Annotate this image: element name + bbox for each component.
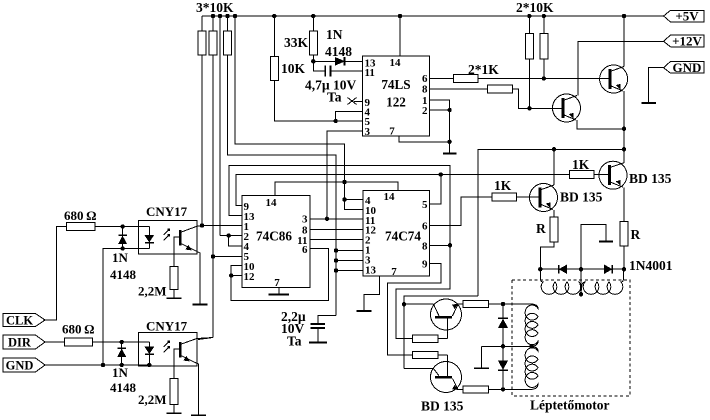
node diode column top (501, 302, 505, 306)
node diode line right (622, 267, 626, 271)
transistor BD135 left (530, 184, 558, 212)
resistor 2*1K b (488, 85, 513, 93)
wire +12V to T2 collector (578, 41, 664, 95)
light arrow CNY17#2 (164, 343, 169, 353)
wire U1 pin6 to 2*1K a (430, 78, 454, 80)
node rail junction T1 collector line (622, 14, 626, 18)
transistor BD135 bottom-upper (431, 299, 462, 330)
svg-text:6: 6 (302, 244, 308, 256)
node 74C74 pin5 tap (439, 172, 443, 176)
wire U3 pin9 to lower base resistor (388, 263, 441, 355)
resistor 2,2M #2 (170, 378, 178, 404)
resistor R-pullup2 (3*10K) (212, 16, 214, 31)
wire BD135-right emitter to R (623, 188, 625, 222)
svg-text:R: R (536, 221, 546, 236)
wire +5V rail (202, 15, 664, 17)
wire 74C74 pin8 stub (430, 244, 451, 246)
svg-text:10K: 10K (281, 61, 306, 76)
resistor emitter bottom-upper (463, 300, 488, 307)
wire supply line y149 (478, 149, 624, 296)
wire 680#1 to optocoupler LED (95, 226, 149, 228)
diode 1N4148 #1 (input clamp) (122, 227, 124, 249)
wire BD135-left collector riser (553, 149, 555, 185)
wire 2*10K b to T1 base line (543, 59, 545, 79)
wire BD135-left emitter to R (553, 210, 555, 217)
resistor R-pullup1 (3*10K) (201, 16, 203, 31)
wire DIR to 680ohm #2 (45, 341, 64, 343)
capacitor 4,7u 10V Ta (313, 61, 325, 71)
node GND / cathode return #1 (101, 363, 105, 367)
svg-text:2,2M: 2,2M (138, 284, 167, 299)
flag GND (right) (664, 61, 705, 73)
ground diode column (480, 346, 482, 367)
svg-text:2,2M: 2,2M (138, 392, 167, 407)
wire U2 pin11 to 74C74 pin2 (310, 239, 363, 241)
motor dashed box (512, 280, 630, 396)
svg-text:1K: 1K (494, 178, 512, 193)
resistor 33K (312, 16, 314, 31)
wire bottom-lower base riser (447, 355, 449, 376)
wire bottom-upper emitter to resistor (458, 303, 463, 305)
wire 680#2 to optocoupler LED (93, 341, 150, 343)
wire U1 pin1/pin2 to ground (430, 100, 450, 153)
diode 1N4001 right (points right) (604, 265, 611, 274)
wire 1N4001 line (540, 268, 624, 270)
node U1 pin7 junction (447, 140, 451, 144)
svg-text:5: 5 (422, 199, 428, 211)
wire U2 pin8 to 74C74 pin12 (310, 229, 363, 231)
node diode1 anode (120, 224, 124, 228)
wire top winding right riser (623, 268, 625, 270)
resistor 680ohm #1 (67, 223, 95, 231)
svg-text:14: 14 (266, 197, 278, 209)
svg-text:8: 8 (422, 241, 428, 253)
diode 1N4148 (to U1 pin13) (313, 60, 335, 62)
wire top winding center riser (580, 269, 582, 294)
svg-text:BD 135: BD 135 (421, 399, 464, 414)
ground capacitor 2,2u (309, 342, 327, 344)
IC U1 74LS122 (363, 56, 430, 136)
wire to motor coil bottom-left (503, 388, 532, 390)
node supply / BD135-left collector (552, 147, 556, 151)
wire 2,2M#1 to ground (173, 290, 175, 298)
node diode line center (579, 267, 583, 271)
diode 1N4148 #2 (input clamp) (121, 342, 123, 365)
wire 74C74 pin4 stub (345, 199, 364, 201)
resistor 1K (BD135 left base) (492, 193, 517, 201)
svg-text:74C74: 74C74 (385, 229, 421, 244)
svg-text:Léptetőmotor: Léptetőmotor (530, 398, 609, 413)
wire 33K junction (312, 55, 314, 61)
wire freewheel diode column (502, 304, 504, 389)
wire 74C74 pin5 hook (430, 175, 441, 205)
flag +12V (664, 35, 705, 47)
wire T1 emitter down (623, 91, 625, 129)
node diode1 cathode (120, 246, 124, 250)
node clear bus 74C74 pin3 (334, 258, 338, 262)
diode freewheel upper (points up) (498, 317, 508, 319)
svg-text:7: 7 (391, 266, 397, 278)
svg-text:122: 122 (386, 95, 406, 110)
node U2 pin12 junction (229, 273, 233, 277)
svg-text:2*10K: 2*10K (516, 0, 554, 15)
node clear bus 74C74 pin13 (334, 268, 338, 272)
node supply / BD135-right collector (622, 147, 626, 151)
wire supply to bottom-lower collector (404, 368, 434, 370)
wire BD135-right collector riser (623, 149, 625, 163)
wire U3 pin7 to ground (364, 276, 380, 310)
wire r2 down to 74C86 pin5 / CNY17#2 collector (212, 55, 214, 338)
resistor 2*10K a (528, 16, 530, 34)
wire GND line (45, 364, 149, 366)
wire upper collector branch (404, 303, 434, 305)
ground U1 (443, 153, 456, 155)
transistor T1 (upper right) (600, 65, 628, 93)
node left winding tap (529, 344, 533, 348)
svg-text:BD 135: BD 135 (629, 171, 672, 186)
resistor 2,2M #1 (170, 267, 178, 290)
wire Vcc pin14s line (275, 182, 398, 195)
capacitor 2,2u 10V Ta (clear bus) (318, 316, 336, 325)
svg-text:3: 3 (365, 126, 371, 138)
svg-text:33K: 33K (284, 35, 309, 50)
wire r3 to 74C74 clear bus (228, 55, 337, 316)
wire U3 pin3 stub (336, 260, 363, 262)
node U2 pin3 / U1 pin3 (325, 217, 329, 221)
wire 2*10K a to T2 base line (528, 59, 530, 108)
wire 2*1K b to T2 base (512, 89, 563, 108)
node 74C74 pin8 tap (448, 243, 452, 247)
wire U2 pin4 hook (229, 236, 242, 246)
flag DIR (3, 335, 45, 349)
svg-text:1N4001: 1N4001 (629, 258, 673, 273)
node diode line left (538, 267, 542, 271)
IC U3 74C74 (363, 191, 429, 277)
node r2 / 74C86 pin5 (211, 254, 215, 258)
svg-text:+12V: +12V (672, 34, 702, 49)
wire U1 pin8 to 2*1K b (430, 88, 488, 90)
node pin4 hook on pin5 line (333, 119, 337, 123)
flag CLK (3, 314, 45, 327)
resistor 680ohm #2 (64, 338, 92, 346)
svg-text:680 Ω: 680 Ω (64, 208, 97, 223)
resistor R-pullup3 (3*10K) (227, 16, 229, 31)
wire base res to riser (upper) (438, 338, 448, 340)
optocoupler U5 CNY17 box (138, 333, 196, 366)
wire U1 pin14 to +5V rail (399, 16, 401, 56)
svg-text:CNY17: CNY17 (146, 319, 188, 334)
ground U2 pin7 (278, 288, 280, 294)
svg-text:CNY17: CNY17 (146, 204, 188, 219)
wire bottom-lower emitter to resistor (458, 388, 463, 390)
svg-text:14: 14 (390, 57, 402, 69)
svg-text:4148: 4148 (325, 44, 352, 59)
node CNY17#1 collector to r1 and U2 pin1 (200, 223, 204, 227)
inductor winding left lower (525, 346, 538, 389)
ground CNY17#2 emitter (191, 414, 206, 416)
wire U2 pin3 to 74C74 pin11 (310, 218, 363, 220)
svg-text:74C86: 74C86 (256, 229, 292, 244)
wire 2*1K a to T1 base (478, 78, 610, 80)
wire U1 pin3 to 74C86 pin3 (327, 131, 363, 219)
diode freewheel lower (points down) (498, 361, 507, 370)
svg-text:4148: 4148 (110, 267, 137, 282)
svg-text:14: 14 (384, 191, 396, 203)
wire 1K to BD135-right base (594, 174, 609, 176)
node diode2 anode (120, 340, 124, 344)
node rail junction 2*10K a (527, 14, 531, 18)
wire 74C86 pin13 to 74C74 pin8 (bus) (229, 166, 450, 339)
svg-text:1N: 1N (326, 27, 343, 42)
wire +5V to 74C86 pins 2,4 (219, 16, 221, 236)
wire U2 pin1 from CNY17#1 (202, 225, 242, 227)
resistor 1K (BD135 right base) (570, 171, 594, 179)
transistor BD135 right (599, 161, 627, 189)
wire R left jog to diode line (540, 242, 554, 269)
resistor base bottom-lower (412, 351, 437, 358)
node rail junction r2 (211, 14, 215, 18)
LED of CNY17#2 (148, 342, 150, 347)
wire U2 pin5 from r2 (213, 256, 242, 258)
svg-text:2: 2 (422, 105, 428, 117)
node U1 pin2 junction (447, 108, 451, 112)
wire U3 pin6 to 1K (BD135 left) (430, 197, 493, 226)
node diode2 cathode (120, 363, 124, 367)
svg-text:R: R (631, 227, 641, 242)
svg-text:BD 135: BD 135 (560, 190, 603, 205)
flag +5V (664, 10, 705, 22)
wire CNY17#1 base to 2,2M (174, 237, 179, 267)
svg-text:Ta: Ta (327, 90, 342, 105)
svg-text:8: 8 (422, 84, 428, 96)
wire 1K to BD135-left base (517, 196, 541, 198)
node T2 base junction (527, 106, 531, 110)
ground GND flag (641, 102, 656, 104)
wire 2,2M#2 to ground (173, 405, 175, 413)
svg-text:680 Ω: 680 Ω (62, 322, 95, 337)
svg-text:GND: GND (6, 359, 34, 373)
node LED#2 cathode / GND (147, 363, 151, 367)
inductor winding top left (540, 278, 581, 294)
node rail junction r3 (225, 14, 229, 18)
wire base res to riser (lower) (438, 354, 448, 356)
wire LED#1 cathode return to GND line (103, 249, 149, 366)
resistor R (right) (620, 222, 628, 246)
svg-text:1N: 1N (112, 250, 129, 265)
node supply / upper collector branch (402, 302, 406, 306)
trigger mark X at U1 pin9 (348, 98, 357, 105)
svg-text:4148: 4148 (110, 380, 137, 395)
wire CNY17#2 base to 2,2M (174, 349, 179, 378)
svg-text:1K: 1K (572, 157, 590, 172)
svg-text:CLK: CLK (6, 314, 33, 328)
wire +5V to 74C74 Vcc bus (235, 16, 363, 210)
svg-text:13: 13 (365, 265, 377, 277)
node rail junction wire-220 (218, 14, 222, 18)
svg-text:7: 7 (389, 126, 395, 138)
node rail junction 2*10K b (542, 14, 546, 18)
svg-text:6: 6 (422, 221, 428, 233)
node top winding tap (579, 292, 583, 296)
transistor BD135 bottom-lower (431, 362, 462, 393)
svg-text:DIR: DIR (8, 336, 32, 350)
wire CNY17#2 emitter to ground (194, 362, 199, 415)
wire supply to bottom collectors (404, 296, 478, 369)
wire U2 pin6 to U2 pins10,12 loop (231, 249, 328, 301)
wire U3 pin13 stub (336, 270, 363, 272)
inductor winding left upper (525, 304, 538, 346)
svg-text:9: 9 (422, 259, 428, 271)
resistor R (left) (550, 217, 558, 242)
flag GND (left) (3, 358, 45, 372)
wire GND flag to ground (649, 68, 664, 102)
resistor emitter bottom-lower (463, 386, 488, 393)
wire T2 emitter to junction (577, 120, 624, 129)
wire top winding left riser (539, 269, 541, 278)
phototransistor CNY17#2 (179, 342, 182, 358)
wire center tap left winding (481, 345, 531, 347)
node rail junction U1 pin14 (398, 14, 402, 18)
wire r2 corner to CNY17#2 collector (198, 338, 213, 340)
wire 74C86 pin9 to 74C74 pin5 and 1K base (bus) (236, 175, 569, 206)
svg-text:12: 12 (244, 271, 256, 283)
svg-text:Ta: Ta (287, 334, 302, 349)
node diode column bottom (501, 387, 505, 391)
wire CLK to 680ohm (45, 227, 67, 321)
wire U1 pin4 hook (336, 112, 363, 122)
node clear bus 74C74 pin1 (334, 248, 338, 252)
wire +5V to T1 collector (623, 16, 625, 67)
svg-text:GND: GND (673, 60, 702, 75)
optocoupler U4 CNY17 box (138, 221, 196, 254)
svg-text:3*10K: 3*10K (196, 0, 234, 15)
node T1 base junction (542, 76, 546, 80)
node diode column center (501, 344, 505, 348)
wire R right to diode line (623, 246, 625, 269)
resistor 2*1K a (453, 75, 478, 83)
IC U2 74C86 (242, 195, 310, 287)
ground U3 (356, 310, 371, 312)
svg-text:1N: 1N (112, 365, 129, 380)
ground CNY17#1 emitter (193, 304, 208, 306)
phototransistor CNY17#1 (179, 230, 182, 246)
diode 1N4001 left (points left) (558, 265, 560, 274)
wire CNY17#1 emitter to ground (196, 251, 201, 304)
node rail junction 10K (272, 14, 276, 18)
wire 10K to U1 pin5 line (274, 81, 362, 122)
transistor T2 (553, 94, 581, 122)
resistor 10K (273, 16, 275, 57)
svg-text:7: 7 (274, 277, 280, 289)
ground 2,2M#1 (167, 297, 182, 299)
svg-text:+5V: +5V (675, 9, 699, 24)
node Vcc bus / 74C74 pin4 (342, 197, 346, 201)
wire emitter junction down to supply line (623, 129, 625, 163)
wire to motor coil top-left (503, 303, 532, 305)
wire U2 pin2/pin4 to +5V line (220, 235, 242, 237)
inductor winding top right (581, 269, 624, 294)
resistor 2*10K b (543, 16, 545, 34)
wire U1 pin7 to ground (399, 136, 450, 142)
node rail junction 33K (311, 14, 315, 18)
svg-text:11: 11 (365, 67, 375, 79)
resistor base bottom-upper (412, 335, 437, 342)
node emitter junction (622, 127, 626, 131)
node Vcc bus / 14s line (342, 180, 346, 184)
wire r1 to CNY17#1 collector node (201, 55, 203, 226)
wire bottom-upper base riser (447, 319, 449, 339)
ground 2,2M#2 (167, 412, 182, 414)
wire emitter res to diode column (upper) (489, 303, 504, 305)
node U2 pin2/4 junction (227, 233, 231, 237)
LED of CNY17#1 (148, 227, 150, 236)
light arrow CNY17#1 (164, 231, 169, 241)
ground mid (between R resistors) (581, 225, 606, 270)
wire U2 pin12 stub (231, 275, 242, 277)
svg-text:74LS: 74LS (381, 77, 410, 92)
wire U3 pin1 stub (336, 250, 363, 252)
node 33K/diode/cap junction (311, 59, 315, 63)
wire emitter res to diode column (lower) (489, 388, 504, 390)
node rail junction wire-235 (233, 14, 237, 18)
